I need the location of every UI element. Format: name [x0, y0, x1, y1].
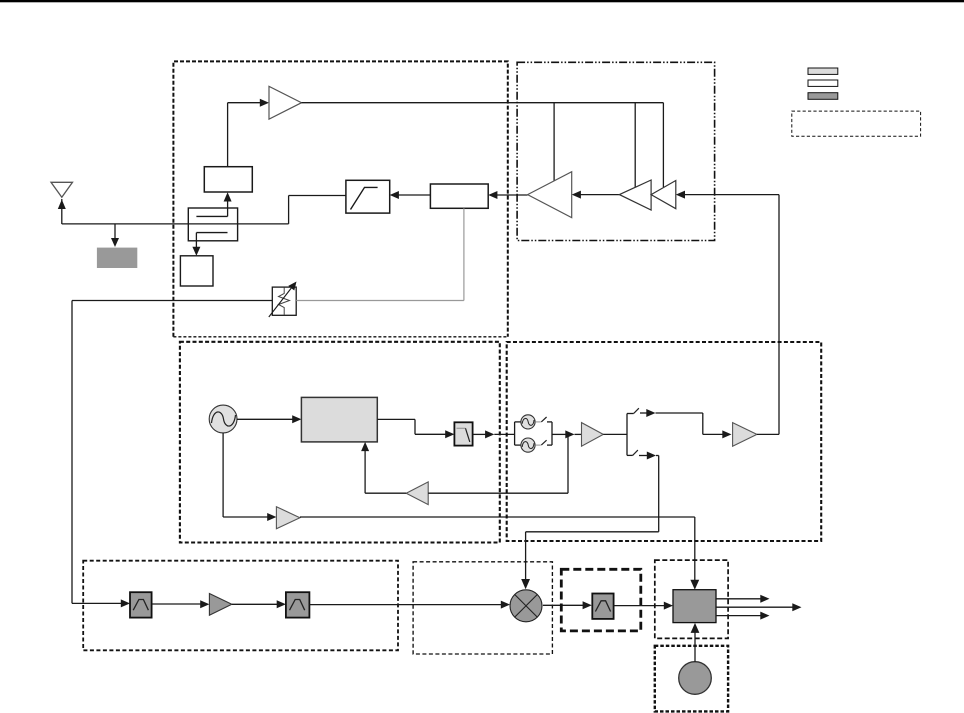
IF filter chain (dashed box): [83, 561, 398, 651]
demodulator block (dashed box): [655, 560, 728, 638]
wire divider to PLL box: [361, 442, 406, 493]
RF front-end block (dashed box): [173, 61, 507, 336]
wire VCO output to divider: [428, 434, 568, 493]
wire detector to buffer amp: [228, 99, 269, 167]
VCO / LO distribution block (dashed box): [507, 342, 822, 541]
clock source block (dashed box): [655, 646, 728, 712]
wire limiter to antenna line: [289, 196, 346, 224]
legend swatch light gray: [808, 68, 838, 74]
switch B: [535, 440, 546, 445]
wire demod output I: [716, 595, 770, 603]
wire VCO bank to LO amp: [552, 430, 582, 438]
wire TX LO amp to TX feed: [757, 433, 779, 435]
IF amp (triangle): [209, 594, 231, 616]
mixer block (dashed box): [413, 562, 552, 654]
legend swatch dark gray: [808, 93, 838, 100]
coupled line (top): [196, 215, 227, 217]
variable attenuator: [269, 282, 297, 318]
wire loop filter to VCO bank: [473, 430, 515, 438]
PLL box (light gray): [301, 397, 377, 442]
wire filter1 to IF amp: [152, 600, 210, 608]
wire switch top branch to TX amp: [640, 409, 732, 438]
channel filter block (bold dashed box): [561, 569, 641, 631]
wire PLL to loop filter: [377, 419, 454, 438]
wire antenna feed (up arrow): [58, 199, 66, 224]
driver amp stage 1 (triangle): [651, 181, 676, 209]
reference oscillator OSC1: [209, 405, 237, 433]
wire PA box to limiter: [390, 191, 431, 199]
wire demod output Q: [716, 612, 770, 620]
VCO bank output bracket: [547, 422, 552, 445]
limiter curve symbol: [351, 187, 378, 209]
coupled line (bottom): [196, 232, 227, 234]
duplexer / coupler: [188, 208, 237, 241]
termination load (gray box): [97, 248, 137, 268]
wire IF amp to filter2: [232, 600, 286, 608]
wire demod output data: [716, 603, 802, 611]
driver amplifier bank (dashed box): [517, 62, 715, 240]
wire AGC control (gray) PA box to attenuator: [296, 208, 464, 300]
detector box: [204, 167, 252, 192]
VCO B (oscillator): [521, 438, 535, 452]
wire bias feed drops: [554, 103, 663, 187]
demodulator (gray box): [673, 590, 716, 623]
wire switch bottom branch to mixer LO: [521, 452, 659, 590]
wire filter3 to demodulator: [614, 602, 673, 610]
wire OSC1 to PLL box: [237, 415, 301, 423]
clock oscillator (gray circle): [679, 662, 712, 695]
wire coupler to monitor box: [192, 233, 200, 256]
wire filter2 to mixer: [309, 601, 510, 609]
wire antenna to duplexer (main line): [62, 223, 289, 225]
driver amp stage 2 (triangle): [619, 180, 651, 210]
IF bandpass filter 2: [286, 592, 310, 617]
wire attenuator to IF chain (long left/down): [72, 301, 272, 604]
buffer amp (triangle): [269, 86, 302, 119]
synthesizer block (dashed box): [180, 342, 500, 543]
wire OSC1 to LO buffer: [223, 433, 276, 521]
wire coupler to detector box: [224, 192, 232, 216]
wire LO buffer to demodulator clock: [300, 517, 699, 590]
wire into IF filter 1: [72, 599, 130, 607]
wire clock to demodulator: [691, 623, 700, 662]
loop filter (lowpass box): [454, 422, 472, 445]
wire mixer to IF filter 3: [543, 601, 592, 609]
switch A: [535, 417, 546, 422]
feedback divider amp (triangle, left): [406, 482, 428, 505]
legend swatch white: [808, 80, 838, 86]
IF bandpass filter 3: [592, 594, 613, 619]
LO amp (triangle): [582, 423, 604, 447]
VCO A (oscillator): [521, 415, 535, 429]
IF bandpass filter 1: [130, 592, 152, 617]
wire synth to stage1: [676, 191, 779, 199]
wire TX feed vertical (right side): [778, 195, 780, 435]
driver amp stage 3 (big triangle): [528, 172, 572, 218]
PA box: [430, 184, 488, 208]
TX LO amp (triangle): [733, 423, 757, 447]
wire branch to termination load: [111, 224, 119, 247]
wire buffer amp output (long, to switch bank): [302, 102, 664, 104]
monitor box: [180, 256, 213, 286]
legend dashed frame: [792, 111, 921, 136]
mixer: [510, 590, 542, 622]
LO buffer amp (triangle): [276, 507, 300, 529]
wire LO amp to switch: [603, 433, 627, 435]
antenna ANT: [51, 182, 73, 197]
limiter / shaping box: [346, 180, 390, 213]
VCO bank input bracket: [515, 422, 521, 445]
wire stage2 to stage3: [572, 191, 620, 199]
LO switch (SPDT): [627, 408, 639, 455]
wire driver chain to PA box: [488, 191, 527, 199]
